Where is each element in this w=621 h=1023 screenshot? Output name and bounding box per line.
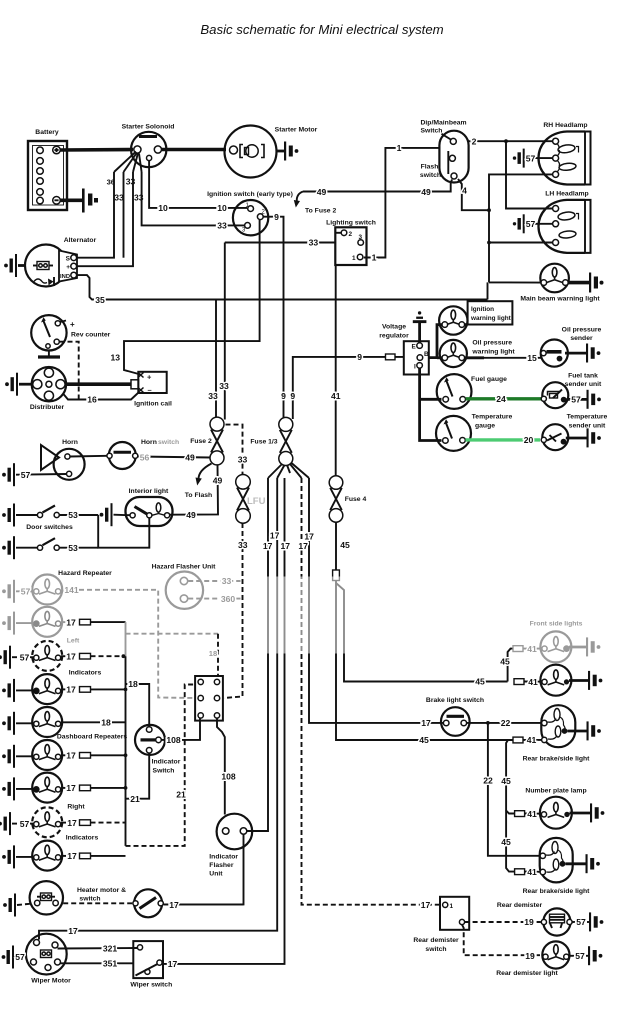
svg-text:33: 33 [238,540,248,550]
wire 33 lighting switch feed down to fuse2 [224,243,226,420]
ground interior light [100,503,113,526]
svg-text:Fuel tank: Fuel tank [568,373,598,380]
temperature sender unit [541,414,607,451]
svg-text:57: 57 [20,652,30,662]
wire battery+ to solenoid (thick) [60,148,133,152]
svg-text:2: 2 [472,137,477,147]
svg-text:switch: switch [79,896,100,903]
svg-text:Flasher: Flasher [209,862,234,869]
svg-text:Fuse 1/3: Fuse 1/3 [250,439,277,446]
svg-text:17: 17 [298,541,308,551]
fuel gauge [437,374,507,409]
svg-text:Unit: Unit [209,871,223,878]
svg-text:41: 41 [331,391,341,401]
svg-text:108: 108 [221,772,236,782]
indicator lamp y787 [2,773,125,803]
regulator I wire to gauges [420,368,442,440]
brake light switch [426,697,484,736]
vertical 17 bundle [247,478,268,831]
svg-text:1: 1 [397,143,402,153]
wire 33 branch to fuse 2 [215,300,217,418]
wire solenoid to starter motor (thick) [162,148,227,152]
svg-text:49: 49 [317,187,327,197]
RH headlamp [539,122,591,185]
svg-text:33: 33 [309,238,319,248]
svg-text:17: 17 [421,900,431,910]
wire 18 to indicator switch [126,684,150,727]
to fuse 2 arrow [297,192,303,202]
svg-text:33: 33 [222,576,232,586]
indicator lamp y855 [2,841,125,871]
svg-text:360: 360 [221,594,236,604]
ground wiper motor 57 [2,946,14,969]
svg-text:22: 22 [501,718,511,728]
wire 49 fuse2 to interior light [169,465,219,515]
svg-text:Front side lights: Front side lights [530,621,583,628]
svg-text:Heater motor &: Heater motor & [77,887,126,894]
svg-text:57: 57 [21,470,31,480]
wire 16 distributor to coil - [63,393,139,400]
voltage regulator [379,324,429,375]
svg-text:S: S [66,256,71,263]
svg-text:17: 17 [67,818,77,828]
ground alternator [4,254,17,277]
svg-text:Fuse 2: Fuse 2 [190,438,212,445]
svg-text:57: 57 [571,395,581,405]
ground starter motor [277,150,285,153]
svg-text:Rev counter: Rev counter [71,332,111,339]
svg-text:switch: switch [425,946,446,953]
svg-text:Flash: Flash [421,164,439,171]
svg-text:20: 20 [524,435,534,445]
svg-text:+: + [147,373,152,382]
svg-text:19: 19 [524,917,534,927]
svg-text:41: 41 [527,644,537,654]
svg-text:switch: switch [420,172,441,179]
svg-text:Switch: Switch [153,768,175,775]
svg-text:57: 57 [526,153,536,163]
svg-text:17: 17 [66,685,76,695]
svg-text:Ignition: Ignition [471,306,494,313]
svg-text:1: 1 [450,903,454,910]
svg-text:321: 321 [103,944,118,954]
svg-text:Left: Left [67,638,80,645]
svg-text:45: 45 [419,735,429,745]
svg-text:Oil pressure: Oil pressure [562,327,602,334]
ignition coil [134,372,172,408]
dashed 360 flasher bottom [188,598,240,600]
svg-text:Indicator: Indicator [152,759,181,766]
svg-text:IND: IND [60,274,70,280]
svg-text:41: 41 [527,735,537,745]
ground temperature sender [587,428,601,447]
ground LH headlamp 57 [513,214,525,233]
indicator switch [135,725,181,775]
svg-text:57: 57 [20,819,30,829]
svg-text:41: 41 [528,677,538,687]
svg-text:Dashboard Repeaters: Dashboard Repeaters [57,734,127,741]
ground heater motor [3,894,16,917]
svg-text:16: 16 [87,395,97,405]
vertical collector wire [125,622,127,656]
wire 49 horn switch to fuse2 [138,457,211,458]
wire RH low beam down [489,174,553,282]
svg-text:1: 1 [352,255,356,262]
wire 9 to voltage regulator [293,357,404,419]
wire 4 flash to headlamp circuit [458,179,489,210]
starter motor [225,126,318,178]
svg-text:18: 18 [209,649,217,658]
parking lamp [540,665,602,696]
svg-text:4: 4 [462,186,467,196]
temperature gauge [436,414,513,451]
svg-text:49: 49 [421,187,431,197]
svg-text:18: 18 [101,718,111,728]
indicator lamp y689 [2,674,125,704]
svg-text:141: 141 [64,585,79,595]
svg-text:+: + [70,320,75,329]
rear demister light [496,941,602,977]
dip/mainbeam switch [420,120,469,183]
svg-text:Dip/Mainbeam: Dip/Mainbeam [421,120,467,127]
front side lights (grey) [530,621,601,663]
dashed 141 to block [61,590,66,591]
dashed rev counter to 16 wire [60,342,79,400]
wiper switch [130,941,172,989]
svg-text:Alternator: Alternator [64,237,97,244]
wire 45 from fuse4 down [335,522,337,737]
wire 2 to RH headlamp [469,140,553,142]
svg-text:57: 57 [15,952,25,962]
svg-text:19: 19 [525,951,535,961]
dashed 21 [126,685,196,846]
svg-text:Voltage: Voltage [382,324,406,331]
hazard flasher unit [152,564,217,609]
svg-text:Ignition switch (early type): Ignition switch (early type) [207,191,293,198]
svg-text:warning light: warning light [471,349,515,356]
LH headlamp [539,191,591,253]
heater motor & switch [30,881,127,914]
svg-text:3: 3 [359,234,363,241]
connector block [195,676,223,721]
svg-text:Main beam warning light: Main beam warning light [520,296,600,303]
wire 9 pin2 right to fuse 1/3 [263,217,283,418]
svg-text:+: + [66,264,70,271]
svg-text:B: B [424,351,429,358]
svg-text:Fuse 4: Fuse 4 [345,496,367,503]
wire LH bottom to junction [489,242,553,244]
wire 20 green temp [466,438,541,441]
svg-text:57: 57 [576,917,586,927]
svg-text:Rear brake/side light: Rear brake/side light [523,756,591,763]
wire 2 junction down to LH top [506,141,553,208]
dashed heater motor to switch [63,902,134,904]
wire 22 brake switch to rear light [467,722,544,724]
svg-text:regulator: regulator [379,333,409,340]
svg-text:warning light: warning light [470,315,512,322]
wire 33 to ignition switch pin3 [142,172,244,225]
scan fade band over wire bundle [252,577,350,654]
dashed 33 from fuse2 top to LFU and block [226,425,243,475]
svg-text:49: 49 [186,510,196,520]
svg-text:33: 33 [114,193,124,203]
svg-text:17: 17 [270,531,280,541]
svg-text:15: 15 [527,353,537,363]
indicator lamp y622 [2,607,125,637]
rear brake/side light 2 [523,838,600,895]
svg-text:45: 45 [501,837,511,847]
svg-text:Horn: Horn [62,439,78,446]
svg-text:LFU: LFU [247,496,266,507]
wire 49 flash switch [303,180,452,192]
wire 351 [60,962,134,964]
svg-text:Switch: Switch [421,128,443,135]
svg-text:108: 108 [166,735,181,745]
heater switch [133,889,163,917]
regulator ground [418,323,421,344]
svg-text:33: 33 [208,391,218,401]
rear demister [497,902,604,936]
svg-text:17: 17 [66,751,76,761]
svg-text:13: 13 [110,353,120,363]
svg-text:45: 45 [500,657,510,667]
fuel tank sender unit [541,373,602,409]
svg-text:Number plate lamp: Number plate lamp [525,788,586,795]
fuse 1/3 [250,417,292,465]
svg-text:Starter Solonoid: Starter Solonoid [122,124,175,131]
svg-text:RH Headlamp: RH Headlamp [543,122,587,129]
svg-text:Battery: Battery [35,129,59,136]
svg-text:Lighting switch: Lighting switch [326,220,376,227]
svg-text:45: 45 [475,677,485,687]
wiper motor [26,934,71,985]
svg-text:10: 10 [158,203,168,213]
svg-text:17: 17 [263,541,273,551]
svg-text:56: 56 [140,453,150,463]
ignition warning light [439,301,512,334]
svg-text:53: 53 [68,510,78,520]
svg-text:24: 24 [496,394,506,404]
svg-text:Temperature: Temperature [567,414,608,421]
svg-text:17: 17 [66,651,76,661]
svg-text:17: 17 [66,617,76,627]
svg-text:49: 49 [185,453,195,463]
wire 13 pin2 down to coil [124,220,260,375]
ground horn 57 [2,463,15,486]
to flash arrow from fuse2 [199,464,212,480]
distributor [30,367,66,411]
wire 41 lighting switch down to fuse4 [335,265,337,476]
svg-text:2: 2 [349,231,353,238]
svg-text:Fuel gauge: Fuel gauge [471,376,507,383]
wire 45 vertical right [506,740,514,814]
svg-text:17: 17 [281,541,291,551]
wire 108 block to flasher unit [217,718,225,814]
wire 36 to alternator S [78,172,115,258]
dashed 19 to rear demister [465,921,541,923]
indicator lamp y722 [2,707,125,737]
indicator flasher unit [209,814,252,878]
svg-text:Oil pressure: Oil pressure [472,340,512,347]
svg-text:Hazard Flasher Unit: Hazard Flasher Unit [152,564,217,571]
svg-text:17: 17 [168,959,178,969]
wire 35 from IND [77,275,488,299]
solenoid fan wires [114,152,136,173]
rear brake/side light 1 [523,705,601,762]
interior light [126,488,173,526]
svg-text:I: I [414,363,416,370]
svg-text:Distributer: Distributer [30,404,65,411]
fuse 2 [190,417,224,465]
dashed 33 flasher top to fuse line [188,580,240,582]
svg-text:33: 33 [238,454,248,464]
svg-text:Basic schematic for Mini elect: Basic schematic for Mini electrical syst… [200,22,443,37]
svg-text:17: 17 [67,851,77,861]
svg-text:–: – [148,386,152,395]
svg-text:Rear brake/side light: Rear brake/side light [523,888,591,895]
svg-text:41: 41 [527,809,537,819]
svg-text:Indicators: Indicators [66,834,99,841]
wire 21 to indicator switch [126,753,150,799]
svg-text:21: 21 [130,794,140,804]
oil pressure warning light [440,340,516,368]
wire 1 dip to lighting switch [364,148,440,258]
svg-text:41: 41 [527,867,537,877]
ignition switch (early type) [207,191,293,235]
main beam warning light [520,264,600,303]
svg-text:Wiper switch: Wiper switch [130,982,172,989]
svg-text:17: 17 [68,926,78,936]
fuse 4 [329,476,366,523]
svg-text:9: 9 [290,391,295,401]
wire 45 to rear lights [336,737,513,740]
svg-text:18: 18 [128,679,138,689]
svg-text:E: E [412,344,417,351]
LFU in-line fuse [236,475,251,490]
ground battery [82,189,98,213]
svg-text:Horn: Horn [141,439,157,446]
svg-text:17: 17 [169,900,179,910]
starter solenoid [122,124,175,168]
svg-text:gauge: gauge [475,423,495,430]
svg-text:Ignition cail: Ignition cail [134,401,172,408]
svg-text:33: 33 [217,220,227,230]
svg-text:57: 57 [21,587,31,597]
number plate lamp [525,788,604,829]
svg-text:351: 351 [103,959,118,969]
svg-text:To Flash: To Flash [185,492,212,499]
svg-text:switch: switch [158,439,179,446]
wire 33 to alternator + [123,172,125,258]
svg-text:Rear demister: Rear demister [413,937,459,944]
svg-text:10: 10 [217,203,227,213]
indicator lamp y822 [0,807,126,837]
svg-text:45: 45 [340,540,350,550]
oil pressure sender [541,327,602,367]
svg-text:Interior light: Interior light [129,488,169,495]
svg-text:LH Headlamp: LH Headlamp [545,191,588,198]
wire 45 branch to front lights [336,583,508,682]
svg-text:21: 21 [176,789,186,799]
wire battery- to ground (thick) [60,199,82,203]
rear demister switch [413,897,469,953]
rev counter [31,315,110,357]
lighting switch [326,220,376,266]
HT lead distributor to coil (thick) [66,382,134,386]
svg-text:Door switches: Door switches [26,524,73,531]
ground main beam warning light [589,273,604,293]
svg-text:Rear demister: Rear demister [497,902,543,909]
alternator [25,237,97,287]
wire 33 ignition to lighting switch [225,242,335,244]
svg-text:Indicator: Indicator [209,854,238,861]
horn [41,439,85,480]
svg-text:9: 9 [274,212,279,222]
svg-text:22: 22 [483,776,493,786]
svg-text:33: 33 [219,381,229,391]
svg-text:49: 49 [213,476,223,486]
svg-text:17: 17 [66,783,76,793]
svg-text:Temperature: Temperature [472,414,513,421]
svg-text:17: 17 [421,718,431,728]
hazard repeater [2,570,112,605]
svg-text:sender: sender [570,335,593,342]
fan out from fuse 1/3 [268,464,282,478]
ground RH headlamp 57 [513,149,525,168]
ground fuel tank sender [587,390,601,409]
indicator lamp y656 [0,641,126,671]
ground oil pressure sender [586,344,600,363]
svg-text:Starter Motor: Starter Motor [275,127,318,134]
svg-text:Hazard Repeater: Hazard Repeater [58,570,112,577]
horn switch [107,439,179,469]
svg-text:Indicators: Indicators [69,670,102,677]
svg-text:9: 9 [281,391,286,401]
svg-text:Wiper Motor: Wiper Motor [31,978,71,985]
branch up to front side lights (grey) [508,649,513,682]
svg-text:35: 35 [95,295,105,305]
svg-text:To Fuse 2: To Fuse 2 [305,208,336,215]
wire 33 third [78,172,134,266]
wire 108 switch to block [161,739,166,741]
wire 321 [58,947,138,950]
flasher bottom wire to heater line [164,834,244,904]
svg-text:53: 53 [68,543,78,553]
svg-text:sender unit: sender unit [565,381,602,388]
svg-text:Right: Right [67,804,85,811]
svg-text:45: 45 [501,776,511,786]
svg-text:9: 9 [357,352,362,362]
svg-text:17: 17 [304,532,314,542]
door switches [2,504,98,532]
regulator B wire to warning lights [429,325,442,358]
svg-text:57: 57 [526,219,536,229]
wire 10 solenoid small pin to ignition pin1 [149,161,247,208]
svg-text:Brake light switch: Brake light switch [426,697,484,704]
indicator lamp y755 [2,740,125,770]
svg-text:1: 1 [372,253,377,263]
grey dashed to block top [126,633,219,635]
svg-text:Rear demister light: Rear demister light [496,970,558,977]
svg-text:33: 33 [126,177,136,187]
battery [28,129,67,210]
wire 24 green fuel [466,397,542,400]
wire 15 to oil pressure sender [465,356,484,359]
svg-text:57: 57 [575,951,585,961]
